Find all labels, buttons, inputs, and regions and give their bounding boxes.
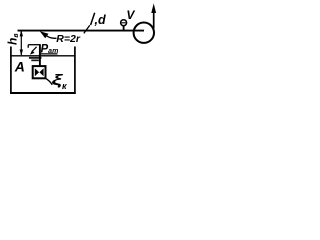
underline P_at	[40, 53, 58, 55]
pump circle	[134, 23, 154, 43]
svg-text:V: V	[126, 8, 135, 22]
vessel A bottom	[10, 92, 76, 94]
wire leader R=2r	[40, 31, 57, 38]
wire xi swash	[46, 78, 53, 85]
valve square	[33, 66, 46, 78]
svg-text:R=2r: R=2r	[56, 33, 81, 45]
water level mark arrow	[30, 47, 37, 55]
gauge V small circle	[121, 20, 127, 32]
water hatch row 2	[31, 60, 39, 62]
arrow up from pump	[151, 3, 156, 28]
svg-text:к: к	[62, 81, 67, 91]
svg-text:А: А	[14, 59, 25, 75]
water hatch row 1	[29, 57, 42, 59]
water level mark bar	[28, 44, 41, 46]
svg-text:,d: ,d	[94, 13, 106, 27]
vessel A left wall	[10, 47, 12, 94]
vessel A right wall	[74, 47, 76, 94]
label l,d	[91, 13, 95, 25]
water surface line	[11, 55, 75, 57]
node hB dimension line	[20, 30, 23, 56]
valve bowtie right triangle	[39, 68, 43, 76]
wire pipe l,d horizontal line	[18, 30, 145, 32]
wire leader tick for l,d	[84, 25, 90, 33]
valve bowtie left triangle	[35, 68, 39, 76]
water level mark tick	[27, 45, 29, 48]
tube vertical	[39, 45, 41, 67]
